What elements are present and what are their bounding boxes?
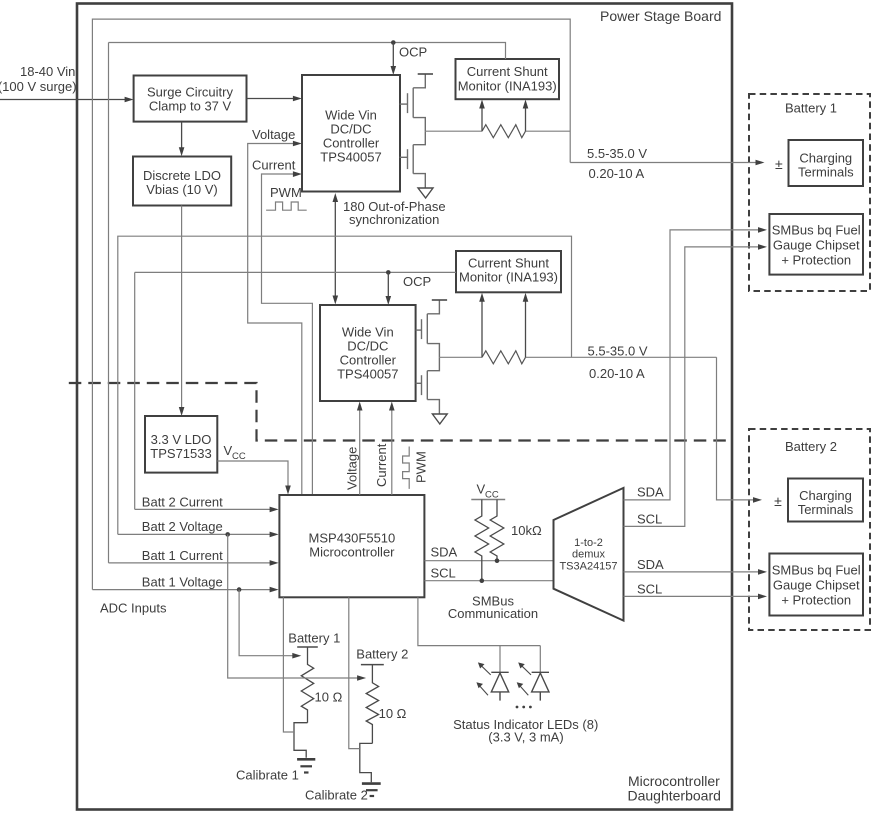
wire Vin input xyxy=(0,99,125,101)
SMBus fuel gauge box (battery 2) xyxy=(769,554,863,616)
svg-text:OCP: OCP xyxy=(403,274,431,289)
svg-text:Batt 1 Current: Batt 1 Current xyxy=(142,548,223,563)
svg-text:TS3A24157: TS3A24157 xyxy=(559,561,617,573)
wire OCP arrow into controller 2 xyxy=(387,272,389,298)
power stage board border xyxy=(77,4,732,810)
svg-text:Discrete LDO: Discrete LDO xyxy=(143,168,221,183)
svg-text:SMBus bq Fuel: SMBus bq Fuel xyxy=(772,223,861,238)
wire gate calibrate 2 from MSP xyxy=(349,597,360,748)
wire battery 1 voltage sense net xyxy=(92,19,570,590)
wire current control MSP to controller 2 xyxy=(391,408,393,495)
svg-text:Voltage: Voltage xyxy=(252,127,295,142)
resistor shunt (channel 2) xyxy=(482,351,526,364)
svg-text:PWM: PWM xyxy=(414,451,429,483)
discrete LDO box xyxy=(133,157,231,206)
battery 1 dashed box xyxy=(749,94,870,291)
wire battery 2 voltage sense net xyxy=(118,236,572,534)
wire shunt output (channel 2) xyxy=(526,356,717,358)
pwm waveform glyph 2 (vertical) xyxy=(403,447,410,489)
transistor calibrate switch 1 xyxy=(294,723,308,758)
svg-text:1-to-2: 1-to-2 xyxy=(574,537,603,549)
wire Vcc to MSP xyxy=(217,461,288,487)
battery 2 dashed box xyxy=(749,429,870,630)
svg-text:Charging: Charging xyxy=(799,151,852,166)
transistor Q4 low-side (channel 2) xyxy=(416,357,440,414)
wire shunt sense arrows into INA193 (channel 2) xyxy=(481,297,483,357)
surge circuitry box xyxy=(134,76,247,122)
svg-text:+ Protection: + Protection xyxy=(781,253,851,268)
svg-text:Monitor (INA193): Monitor (INA193) xyxy=(459,270,558,285)
input rail T-bar (channel 2) xyxy=(432,299,447,301)
controller 1 box TPS40057 xyxy=(302,75,400,192)
svg-text:TPS71533: TPS71533 xyxy=(150,446,211,461)
wire batt2 voltage tap to calibration pot 2 xyxy=(228,534,359,678)
svg-text:±: ± xyxy=(774,493,782,509)
wire output to battery 1 xyxy=(570,162,757,164)
svg-text:TPS40057: TPS40057 xyxy=(320,150,381,165)
ground symbol (channel 1) xyxy=(418,188,433,198)
svg-text:Current: Current xyxy=(374,443,389,487)
wire surge to controller 1 xyxy=(247,98,294,100)
svg-text:10 Ω: 10 Ω xyxy=(379,706,407,721)
resistor pullup right 10k xyxy=(490,500,504,561)
wire OCP net channel 1 xyxy=(109,43,506,60)
wire phase node to shunt (channel 2) xyxy=(439,356,482,358)
svg-text:Batt 2 Current: Batt 2 Current xyxy=(142,494,223,509)
svg-text:Charging: Charging xyxy=(799,488,852,503)
MSP430 microcontroller box xyxy=(279,495,424,597)
svg-text:PWM: PWM xyxy=(270,185,302,200)
svg-text:Daughterboard: Daughterboard xyxy=(628,788,721,804)
svg-text:Current Shunt: Current Shunt xyxy=(467,64,548,79)
svg-text:(3.3 V, 3 mA): (3.3 V, 3 mA) xyxy=(488,730,563,745)
wire OCP arrow into controller 1 xyxy=(392,43,394,69)
svg-text:10 Ω: 10 Ω xyxy=(315,690,343,705)
svg-text:OCP: OCP xyxy=(399,45,427,60)
svg-text:Battery 2: Battery 2 xyxy=(356,647,408,662)
wire voltage feedback controller 1 xyxy=(248,144,302,496)
svg-text:Vbias (10 V): Vbias (10 V) xyxy=(146,182,218,197)
transistor calibrate switch 2 xyxy=(360,743,373,782)
svg-text:Calibrate 2: Calibrate 2 xyxy=(305,788,368,803)
LED D1 emission arrows xyxy=(478,664,491,695)
wire ADC row batt 2 current xyxy=(135,508,271,510)
svg-text:10kΩ: 10kΩ xyxy=(511,523,542,538)
svg-text:SCL: SCL xyxy=(637,582,662,597)
pwm waveform glyph 1 xyxy=(266,202,307,210)
svg-text:SCL: SCL xyxy=(637,512,662,527)
controller 2 box TPS40057 xyxy=(320,305,416,401)
wire battery 2 current sense net xyxy=(134,272,136,509)
input rail T-bar (channel 1) xyxy=(418,73,433,75)
wire SCL MSP to demux xyxy=(424,580,553,582)
svg-text:Batt 1 Voltage: Batt 1 Voltage xyxy=(142,575,223,590)
resistor shunt (channel 1) xyxy=(482,125,526,138)
svg-text:Battery 2: Battery 2 xyxy=(785,439,837,454)
battery terminal T-bar 2 xyxy=(361,664,384,666)
wire gate calibrate 1 from MSP xyxy=(283,597,294,732)
svg-text:Terminals: Terminals xyxy=(798,502,854,517)
svg-text:Microcontroller: Microcontroller xyxy=(309,545,395,560)
node OCP2 junction dot xyxy=(386,270,391,275)
svg-text:SDA: SDA xyxy=(637,485,664,500)
svg-text:MSP430F5510: MSP430F5510 xyxy=(309,531,396,546)
svg-text:Battery 1: Battery 1 xyxy=(785,101,837,116)
wire ADC row batt 2 voltage xyxy=(118,533,271,535)
wire 180 sync line between controllers xyxy=(334,197,336,300)
wire output to battery 2 xyxy=(717,357,755,500)
svg-text:ADC Inputs: ADC Inputs xyxy=(100,601,167,616)
svg-text:DC/DC: DC/DC xyxy=(330,122,371,137)
svg-text:DC/DC: DC/DC xyxy=(347,339,388,354)
wire shunt sense arrows into INA193 (channel 1) xyxy=(481,104,483,131)
wire SDA demux to battery 2 xyxy=(624,571,760,573)
demux trapezoid TS3A24157 xyxy=(554,488,624,621)
svg-text:Monitor (INA193): Monitor (INA193) xyxy=(458,79,557,94)
svg-text:Wide Vin: Wide Vin xyxy=(325,108,377,123)
current shunt monitor box 1 INA193 xyxy=(456,59,560,99)
transistor Q3 high-side (channel 2) xyxy=(416,300,440,357)
svg-text:Controller: Controller xyxy=(323,136,380,151)
svg-text:Clamp to 37 V: Clamp to 37 V xyxy=(149,99,232,114)
svg-text:0.20-10 A: 0.20-10 A xyxy=(589,166,645,181)
charging terminals box (battery 1) xyxy=(789,140,864,186)
svg-text:synchronization: synchronization xyxy=(349,212,439,227)
SMBus fuel gauge box (battery 1) xyxy=(769,214,863,275)
wire surge to discrete LDO xyxy=(181,122,183,149)
node dot batt 1 voltage tap xyxy=(237,587,242,592)
wire batt1 voltage tap to calibration pot 1 xyxy=(239,590,294,656)
LED D1 xyxy=(491,672,508,700)
svg-text:+ Protection: + Protection xyxy=(781,593,851,608)
wire LED 1 branch xyxy=(499,646,501,673)
ground symbol calibrate 2 xyxy=(362,782,381,785)
wire LED 2 branch xyxy=(539,646,541,673)
svg-text:±: ± xyxy=(775,156,783,172)
wire SCL demux to battery 2 xyxy=(624,595,760,597)
wire voltage control MSP to controller 2 xyxy=(359,408,361,495)
node OCP1 junction dot xyxy=(391,40,396,45)
wire SCL demux to battery 1 xyxy=(624,247,760,527)
transistor Q2 low-side (channel 1) xyxy=(400,131,426,188)
transistor Q1 high-side (channel 1) xyxy=(400,74,426,131)
3.3V LDO box xyxy=(145,416,217,473)
svg-text:SCL: SCL xyxy=(431,566,456,581)
wire ADC row batt 1 current xyxy=(109,562,272,564)
svg-text:18-40 Vin: 18-40 Vin xyxy=(20,64,75,79)
current shunt monitor box 2 INA193 xyxy=(456,251,561,292)
wire discrete LDO to 3.3V LDO xyxy=(181,206,183,409)
node dot pullup to SCL xyxy=(480,578,485,583)
svg-text:Controller: Controller xyxy=(340,353,397,368)
svg-text:TPS40057: TPS40057 xyxy=(337,367,398,382)
wire current feedback controller 1 xyxy=(262,174,313,495)
svg-text:Terminals: Terminals xyxy=(798,165,854,180)
LED D2 emission arrows xyxy=(519,664,532,695)
svg-text:(100 V surge): (100 V surge) xyxy=(0,79,77,94)
svg-text:3.3 V LDO: 3.3 V LDO xyxy=(151,432,212,447)
resistor pullup left 10k xyxy=(475,500,489,581)
node dot batt 2 voltage tap xyxy=(225,532,230,537)
dashed board divider xyxy=(69,383,732,441)
wire battery 1 current sense net xyxy=(108,43,110,563)
ground symbol (channel 2) xyxy=(432,414,447,424)
wire SDA MSP to demux xyxy=(424,560,553,562)
wire OCP net channel 2 xyxy=(135,271,456,273)
svg-text:Gauge Chipset: Gauge Chipset xyxy=(773,238,860,253)
wire ADC row batt 1 voltage xyxy=(92,589,271,591)
svg-text:Current: Current xyxy=(252,158,296,173)
svg-text:5.5-35.0 V: 5.5-35.0 V xyxy=(587,146,647,161)
vcc rail bar for pullups xyxy=(471,499,505,501)
svg-text:0.20-10 A: 0.20-10 A xyxy=(589,366,645,381)
wire phase node to shunt (channel 1) xyxy=(425,130,482,132)
resistor pot 10 ohm (battery 1) xyxy=(301,647,313,723)
svg-text:Wide Vin: Wide Vin xyxy=(342,325,394,340)
svg-text:SDA: SDA xyxy=(637,557,664,572)
ground symbol calibrate 1 xyxy=(297,758,315,761)
svg-text:Battery 1: Battery 1 xyxy=(288,631,340,646)
svg-text:CC: CC xyxy=(232,451,246,462)
svg-text:Communication: Communication xyxy=(448,606,538,621)
svg-text:Current Shunt: Current Shunt xyxy=(468,256,549,271)
svg-text:Batt 2 Voltage: Batt 2 Voltage xyxy=(142,519,223,534)
svg-text:Power Stage Board: Power Stage Board xyxy=(600,8,721,24)
svg-text:Calibrate 1: Calibrate 1 xyxy=(236,768,299,783)
svg-text:SDA: SDA xyxy=(431,545,458,560)
battery terminal T-bar 1 xyxy=(297,646,318,648)
svg-text:SMBus bq Fuel: SMBus bq Fuel xyxy=(772,563,861,578)
node dot pullup to SDA xyxy=(495,558,500,563)
charging terminals box (battery 2) xyxy=(788,479,863,522)
svg-text:Surge Circuitry: Surge Circuitry xyxy=(147,85,233,100)
svg-text:Gauge Chipset: Gauge Chipset xyxy=(773,578,860,593)
wire MSP to status LEDs xyxy=(418,597,540,645)
wire SDA demux to battery 1 xyxy=(624,230,760,500)
svg-text:demux: demux xyxy=(572,549,606,561)
resistor pot 10 ohm (battery 2) xyxy=(366,665,378,744)
LED D2 xyxy=(532,672,549,700)
wire shunt output to node (channel 1) xyxy=(526,130,571,132)
ellipsis dots more LEDs xyxy=(516,706,519,709)
svg-text:Voltage: Voltage xyxy=(345,447,360,490)
svg-text:5.5-35.0 V: 5.5-35.0 V xyxy=(588,344,648,359)
